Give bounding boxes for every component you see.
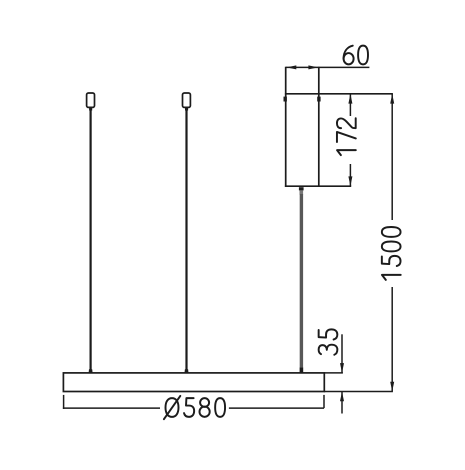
580 dim line left segment — [63, 407, 160, 409]
canopy bottom edge / extension to 172 dim — [285, 185, 351, 187]
35 dim line lower segment — [341, 392, 343, 414]
suspension wire 2 top connector — [183, 93, 191, 107]
suspension wire 1 — [89, 111, 91, 374]
canopy right side — [318, 67, 320, 187]
1500 dim line lower segment — [391, 287, 393, 392]
label 35 — [319, 329, 338, 354]
suspension wire 1 top connector — [87, 93, 95, 107]
wire 2 lower ferrule — [185, 369, 189, 373]
172 dim down arrow — [348, 176, 352, 186]
label 60 — [344, 46, 368, 65]
label diameter 580 — [164, 396, 225, 419]
canopy left mounting nub — [284, 97, 287, 102]
35 dim down arrow — [340, 363, 344, 373]
35 dim line upper segment — [341, 334, 343, 373]
cord top connector — [299, 187, 304, 190]
canopy right mounting nub — [317, 97, 320, 102]
1500 dim up arrow — [390, 94, 394, 104]
suspension wire 2 — [185, 111, 187, 374]
580 dim left extension — [63, 395, 65, 409]
60 dim right arrow — [308, 65, 318, 69]
172 dim up arrow — [348, 94, 352, 104]
bar top extension to 35 dim — [324, 372, 343, 374]
60 dim line — [286, 66, 370, 68]
label 172 — [337, 118, 356, 155]
wire 1 lower ferrule — [89, 369, 93, 373]
172 dim line upper segment — [349, 94, 351, 116]
canopy top edge / extension to 1500 dim — [285, 93, 393, 95]
canopy left side — [285, 67, 287, 187]
1500 dim line upper segment — [391, 94, 393, 220]
label 1500 — [382, 227, 401, 280]
cord lower connector — [300, 368, 304, 373]
35 dim up arrow — [340, 392, 344, 402]
580 dim right extension — [323, 395, 325, 408]
60 dim left arrow — [287, 65, 297, 69]
power cord — [300, 194, 303, 368]
lamp bar — [63, 373, 324, 392]
bar bottom extension to 1500/35 dims — [324, 391, 393, 393]
1500 dim down arrow — [390, 382, 394, 392]
172 dim line lower segment — [349, 164, 351, 186]
580 dim line right segment — [229, 407, 324, 409]
